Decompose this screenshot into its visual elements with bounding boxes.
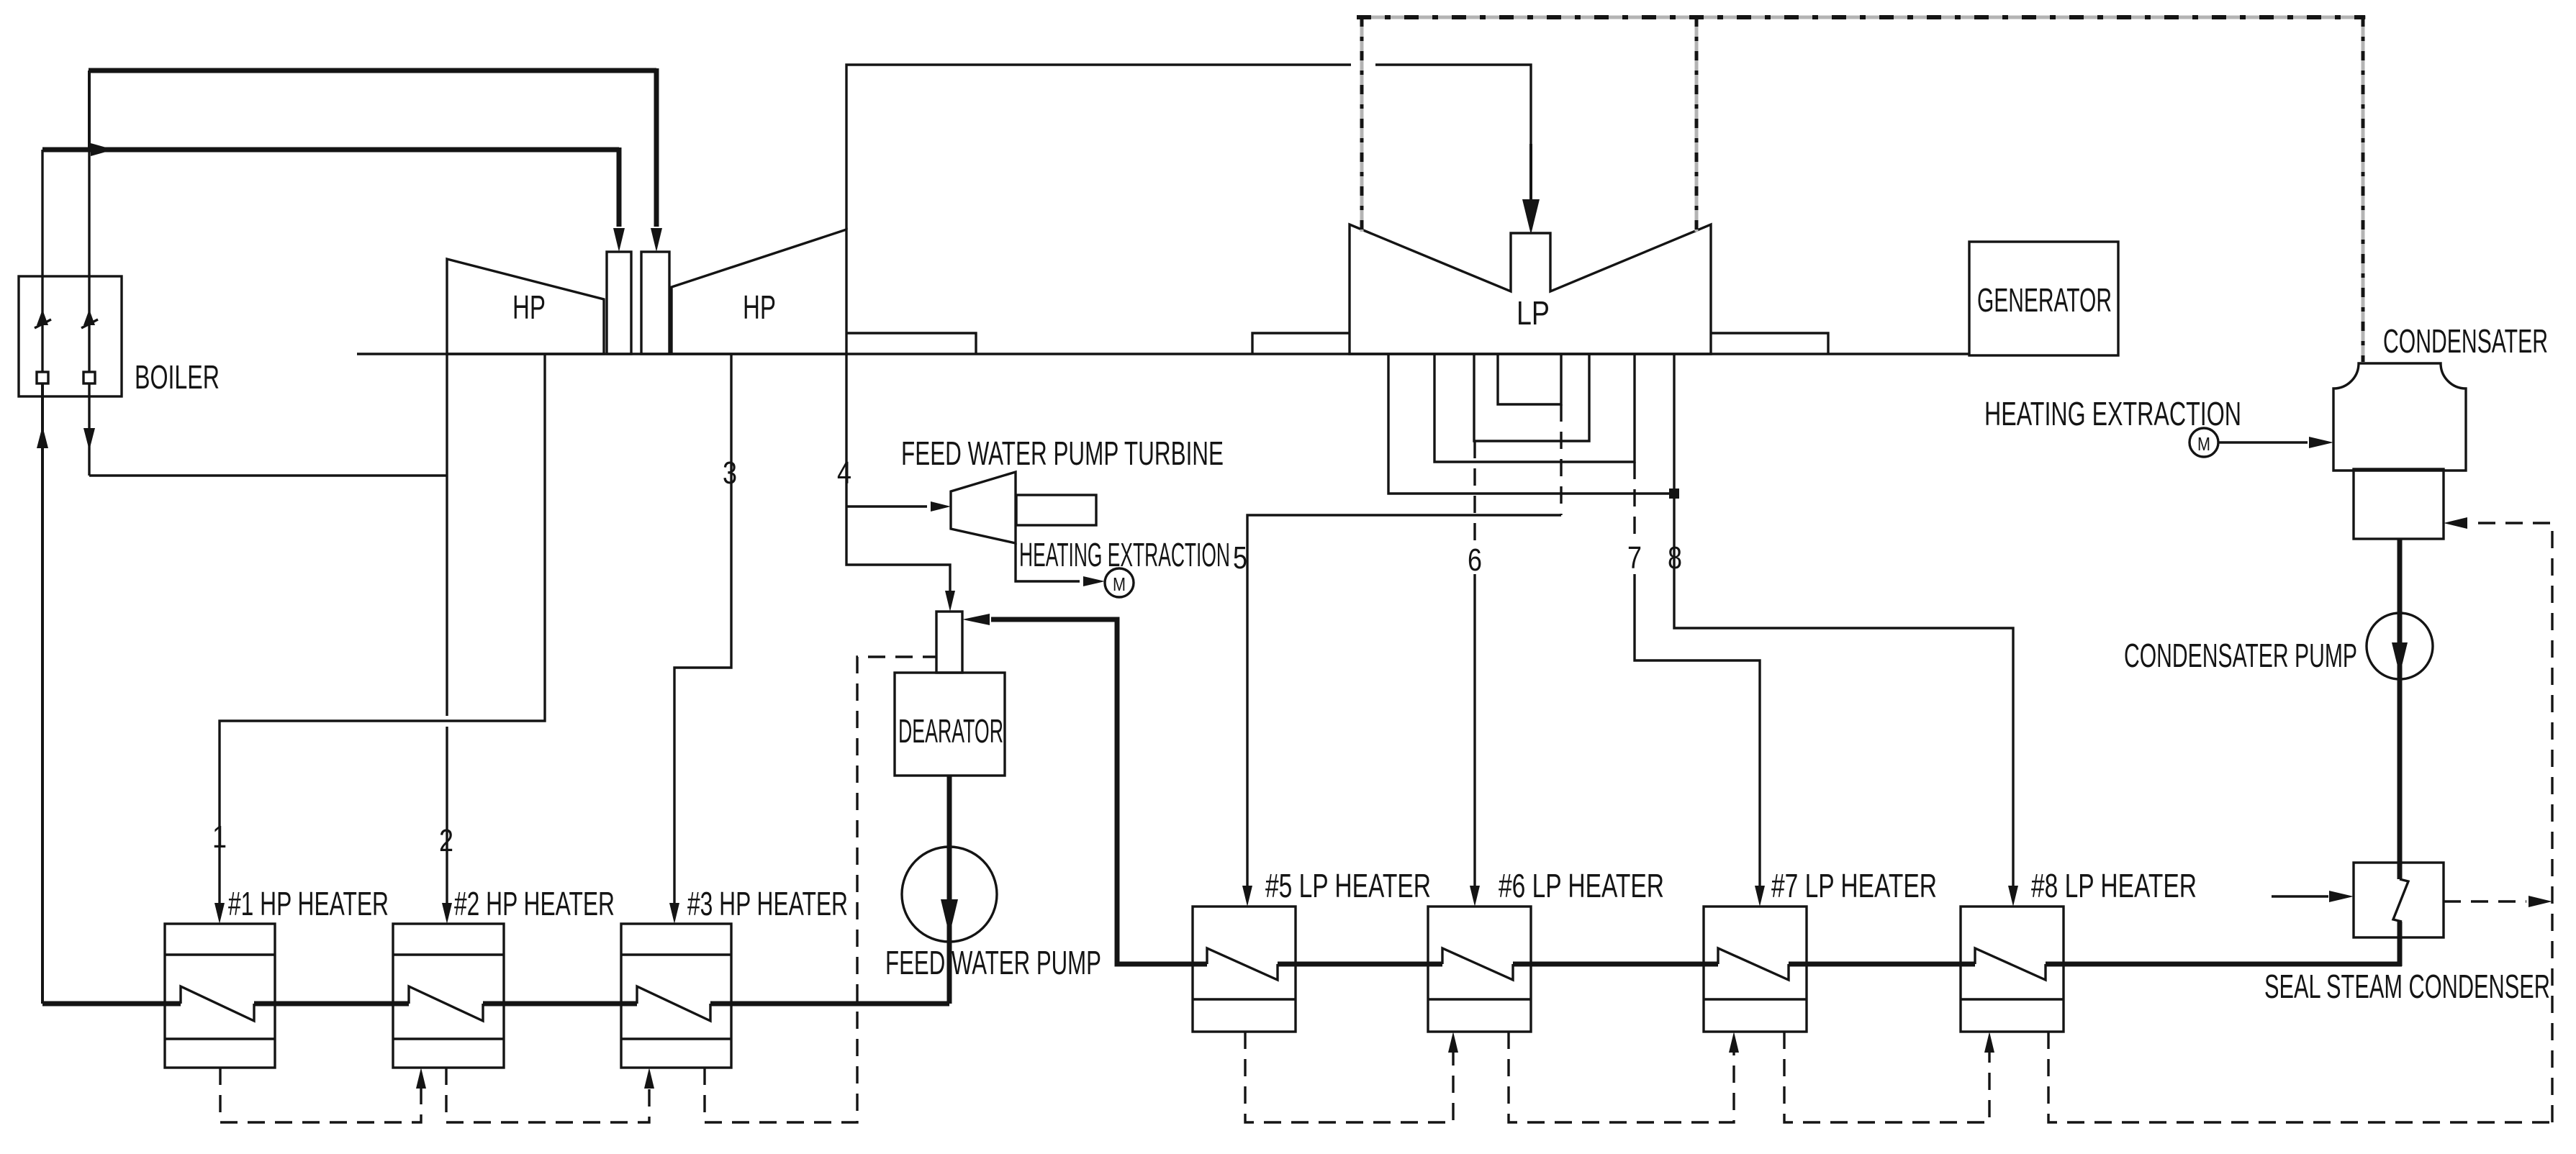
feed water pump suction (thick) <box>947 776 952 1004</box>
svg-text:HEATING EXTRACTION: HEATING EXTRACTION <box>1019 536 1230 573</box>
svg-text:GENERATOR: GENERATOR <box>1977 281 2112 319</box>
svg-text:CONDENSATER PUMP: CONDENSATER PUMP <box>2124 637 2357 674</box>
svg-text:6: 6 <box>1468 542 1482 578</box>
exhaust duct right riser (dash-dot) <box>1695 17 1699 232</box>
drain arrow into heater8 <box>1984 1032 1994 1053</box>
drain return arrow into condenser <box>2444 517 2467 529</box>
svg-text:FEED WATER PUMP: FEED WATER PUMP <box>885 944 1101 981</box>
drain arrow into heater7 <box>1729 1032 1739 1053</box>
heater #8 box <box>1961 907 2064 1032</box>
seal steam condenser inlet wire <box>2272 895 2328 897</box>
svg-text:HP: HP <box>743 288 776 326</box>
svg-text:1: 1 <box>212 819 227 855</box>
feedwater up arrow below boiler <box>37 426 48 448</box>
drain dashed heater3 to dearator <box>705 657 936 1122</box>
feedwater LP segment 8-ssc (thick) <box>2046 962 2402 967</box>
svg-text:#6 LP HEATER: #6 LP HEATER <box>1499 867 1664 904</box>
boiler left internal riser wire <box>41 150 43 372</box>
feedwater main line segment 1 (thick) <box>42 1001 181 1007</box>
condensate pump arrow <box>2392 642 2408 675</box>
heater #1 zigzag <box>181 986 254 1021</box>
feed water pump arrow <box>941 899 958 935</box>
svg-text:#5 LP HEATER: #5 LP HEATER <box>1265 867 1431 904</box>
feedwater main line segment 2 (thick) <box>254 1001 409 1007</box>
exhaust duct drop to condenser (dash-dot) <box>2362 17 2365 362</box>
extraction wire 6 <box>1473 574 1475 896</box>
LP extraction U loop 4 <box>1388 354 1674 494</box>
condenser hotwell box <box>2354 469 2444 539</box>
shaft foot left of LP <box>1252 333 1350 354</box>
feedwater LP segment 5-6 (thick) <box>1278 962 1442 967</box>
HP turbine 1 <box>447 259 604 354</box>
feedwater LP segment 6-7 (thick) <box>1513 962 1718 967</box>
seal steam condenser drain dashed <box>2444 900 2526 902</box>
svg-text:3: 3 <box>723 455 737 491</box>
extraction wire 6 dashed drop <box>1473 441 1475 541</box>
drain dashed heater2 to heater3 <box>446 1068 649 1122</box>
arrow into #2 HP heater <box>442 903 452 924</box>
heating extraction wire into condenser <box>2218 441 2308 443</box>
main steam drop to right HP valve <box>654 68 659 227</box>
LP extraction U loop 1 <box>1498 354 1561 404</box>
drain dashed heater8 to riser <box>2048 1032 2552 1122</box>
shaft foot right of LP <box>1711 333 1828 354</box>
condenser shell <box>2333 363 2466 471</box>
svg-text:8: 8 <box>1668 540 1682 576</box>
node junction dot on U4 <box>1669 489 1679 499</box>
condensate pump circle <box>2367 613 2433 679</box>
exhaust duct top run (dash-dot) <box>1357 15 2365 19</box>
heater #6 box <box>1428 907 1531 1032</box>
feedwater riser to boiler (thick) <box>41 383 44 1004</box>
svg-text:LP: LP <box>1517 294 1550 332</box>
svg-text:M: M <box>1113 573 1126 595</box>
feed water pump turbine body <box>951 472 1016 543</box>
svg-text:BOILER: BOILER <box>135 358 220 396</box>
drain arrow into heater3 <box>644 1068 654 1089</box>
arrow into left HP valve <box>613 228 625 252</box>
seal steam condenser box <box>2354 863 2444 937</box>
exhaust duct grey underlay condenser drop <box>2362 17 2365 362</box>
svg-text:#7 LP HEATER: #7 LP HEATER <box>1771 867 1937 904</box>
seal steam condenser drain arrow <box>2528 896 2552 907</box>
feedwater LP segment 7-8 (thick) <box>1789 962 1975 967</box>
seal steam condenser outlet (thick) <box>2398 922 2403 966</box>
svg-text:HP: HP <box>512 288 546 326</box>
extraction wire 5 dashed drop <box>1560 404 1562 515</box>
main steam line lower (thick) <box>42 147 619 153</box>
feed water pump turbine exhaust wire <box>1016 543 1080 581</box>
flow arrow on lower main steam line <box>91 143 114 156</box>
heater #6 zigzag <box>1442 948 1513 980</box>
feed water pump circle <box>902 847 997 942</box>
boiler box <box>19 276 122 396</box>
extraction wire 5 <box>1247 515 1561 896</box>
LP turbine body <box>1350 224 1711 354</box>
drain dashed heater5 to heater6 <box>1245 1032 1453 1122</box>
svg-text:SEAL STEAM CONDENSER: SEAL STEAM CONDENSER <box>2264 968 2550 1005</box>
extraction wire 2 <box>446 354 448 716</box>
svg-text:7: 7 <box>1627 540 1642 576</box>
drain dashed heater7 to heater8 <box>1784 1032 1989 1122</box>
drain arrow into heater2 <box>416 1068 426 1089</box>
arrow into #5 LP heater <box>1242 886 1252 907</box>
feed water pump turbine shaft box <box>1016 495 1096 525</box>
steam out down arrow below boiler right port <box>88 383 90 476</box>
heater #8 zigzag <box>1975 948 2046 980</box>
boiler right internal arrow <box>83 309 95 325</box>
cold reheat wire boiler to HP exhaust <box>89 474 447 476</box>
svg-text:#2 HP HEATER: #2 HP HEATER <box>454 885 615 922</box>
turbine shaft line <box>357 353 1969 355</box>
extraction wire 7 dashed drop <box>1633 462 1635 541</box>
heater #7 zigzag <box>1718 948 1789 980</box>
seal steam condenser internal zigzag <box>2393 879 2408 922</box>
feed water pump turbine inlet wire <box>846 505 927 507</box>
main steam line upper (thick) <box>89 68 656 73</box>
heater #2 box <box>393 924 504 1068</box>
heating extraction motor circle mid <box>1105 568 1134 597</box>
svg-text:M: M <box>2197 433 2210 455</box>
HP inlet valve right <box>641 252 669 354</box>
crossover arrow into LP inlet <box>1529 144 1532 209</box>
exhaust duct left riser (dash-dot) <box>1360 17 1364 232</box>
arrow into dearator head <box>945 591 955 612</box>
arrow into #6 LP heater <box>1470 886 1480 907</box>
HP inlet valve left <box>607 252 631 354</box>
extraction wire 7 <box>1635 574 1760 896</box>
extraction wire 8 <box>1674 494 2013 896</box>
heater #5 box <box>1193 907 1296 1032</box>
arrow into #1 HP heater <box>214 903 225 924</box>
svg-text:DEARATOR: DEARATOR <box>898 712 1003 750</box>
feedwater main line segment 3 (thick) <box>483 1001 637 1007</box>
svg-text:HEATING EXTRACTION: HEATING EXTRACTION <box>1984 395 2241 432</box>
arrow into #7 LP heater <box>1755 886 1765 907</box>
svg-text:#1 HP HEATER: #1 HP HEATER <box>228 885 389 922</box>
extraction wire 3 <box>674 354 731 914</box>
condensate line (thick) <box>2398 539 2403 879</box>
svg-text:4: 4 <box>837 455 851 491</box>
heater #7 box <box>1704 907 1807 1032</box>
svg-text:2: 2 <box>439 823 453 858</box>
extraction wire 4 <box>846 354 950 601</box>
boiler right port square <box>83 372 95 383</box>
boiler left internal arrow <box>37 309 48 325</box>
exhaust duct grey underlay top run <box>1362 16 2366 19</box>
extraction wire 1 <box>220 354 545 914</box>
drain dashed heater1 to heater2 <box>220 1068 421 1122</box>
svg-text:CONDENSATER: CONDENSATER <box>2383 322 2548 360</box>
LP extraction U loop 2 <box>1474 354 1589 441</box>
drain arrow into heater6 <box>1448 1032 1458 1053</box>
exhaust duct grey underlay right riser <box>1695 17 1699 232</box>
LP extraction U loop 3 <box>1434 354 1635 462</box>
crossover pipe HP2 to LP <box>846 65 1351 230</box>
dearator head vessel <box>936 612 962 673</box>
exhaust duct grey underlay left riser <box>1360 17 1364 232</box>
heating extraction motor circle right <box>2189 428 2218 457</box>
feedwater from LP heaters into dearator (thick) <box>991 619 1207 964</box>
HP turbine 2 <box>672 230 846 354</box>
heater #5 zigzag <box>1207 948 1278 980</box>
arrow into dearator head <box>962 614 990 625</box>
boiler right internal riser wire <box>88 71 90 372</box>
generator box <box>1969 242 2118 355</box>
svg-text:5: 5 <box>1233 540 1247 576</box>
arrow into #8 LP heater <box>2008 886 2018 907</box>
drain return dashed riser to condenser <box>2474 523 2552 1122</box>
heater #2 zigzag <box>409 986 483 1021</box>
drain dashed heater6 to heater7 <box>1509 1032 1734 1122</box>
heater #3 box <box>621 924 731 1068</box>
arrow into #3 HP heater <box>669 903 679 924</box>
svg-text:FEED WATER PUMP TURBINE: FEED WATER PUMP TURBINE <box>901 435 1224 472</box>
boiler left port square <box>37 372 48 383</box>
heater #1 box <box>165 924 275 1068</box>
heater #3 zigzag <box>637 986 710 1021</box>
svg-text:#8 LP HEATER: #8 LP HEATER <box>2031 867 2197 904</box>
feedwater main line segment 4 (thick) <box>710 1001 949 1007</box>
dearator tank <box>895 673 1005 776</box>
shaft foot right of HP2 <box>846 333 976 354</box>
svg-text:#3 HP HEATER: #3 HP HEATER <box>687 885 848 922</box>
